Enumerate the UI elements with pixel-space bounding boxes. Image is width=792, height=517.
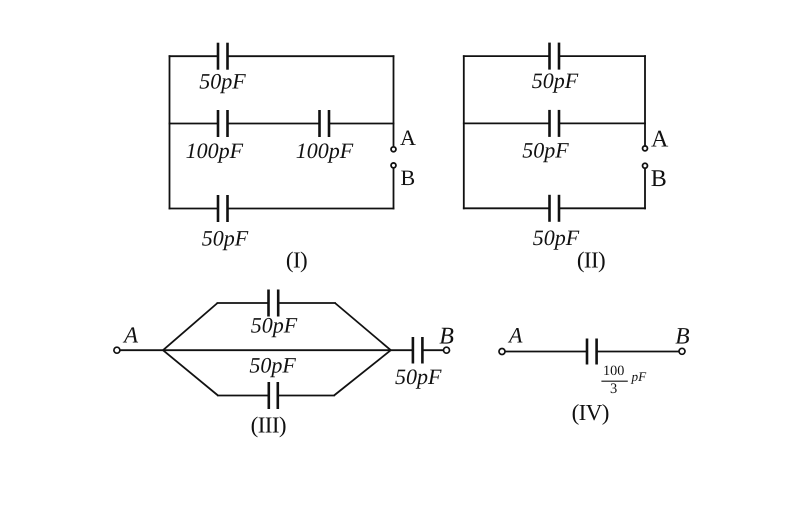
- svg-text:50pF: 50pF: [533, 225, 580, 250]
- svg-text:(II): (II): [577, 247, 605, 272]
- terminal A (circuit III): [114, 347, 120, 353]
- svg-text:50pF: 50pF: [251, 313, 298, 338]
- circuit III : top-right diagonal wire: [335, 303, 391, 350]
- circuit I : right edge upper wire: [393, 55, 395, 146]
- capacitor 50pF (circuit III top branch): [269, 290, 279, 317]
- svg-text:100pF: 100pF: [296, 138, 354, 163]
- svg-text:A: A: [400, 125, 416, 150]
- terminal B (circuit I): [391, 163, 396, 168]
- capacitor 50pF (circuit II bottom branch): [550, 195, 560, 222]
- circuit I : right edge lower wire: [393, 168, 395, 209]
- svg-text:A: A: [507, 323, 523, 348]
- capacitor 50pF (circuit I top branch): [218, 43, 228, 70]
- svg-text:50pF: 50pF: [199, 68, 246, 93]
- svg-text:100: 100: [603, 363, 624, 379]
- circuit I : middle wire left segment: [169, 123, 218, 125]
- circuit II : left edge wire: [463, 55, 465, 209]
- svg-text:pF: pF: [631, 369, 648, 384]
- circuit III : bottom branch wire left segment: [217, 395, 269, 397]
- capacitor 50pF (circuit III series output): [413, 337, 423, 364]
- terminal A (circuit I): [391, 147, 396, 152]
- circuit I : bottom wire right segment: [228, 208, 395, 210]
- circuit III : top-left diagonal wire: [163, 303, 218, 350]
- svg-text:A: A: [122, 323, 139, 348]
- terminal A (circuit II): [643, 146, 648, 151]
- capacitor 100pF (circuit I middle branch, left): [218, 110, 228, 137]
- svg-text:(IV): (IV): [572, 400, 609, 425]
- capacitor 50pF (circuit I bottom branch): [218, 195, 228, 222]
- svg-text:B: B: [651, 166, 667, 192]
- circuit II : right edge upper wire: [644, 55, 646, 145]
- svg-text:(III): (III): [251, 412, 286, 437]
- circuit II : top wire right segment: [559, 55, 646, 57]
- svg-text:B: B: [439, 323, 454, 349]
- capacitor 50pF (circuit II middle branch): [550, 110, 560, 137]
- circuit I : middle wire right segment: [329, 123, 394, 125]
- circuit III : bottom branch wire right segment: [278, 395, 335, 397]
- capacitor 50pF (circuit II top branch): [550, 43, 560, 70]
- circuit I : top wire right segment: [228, 55, 395, 57]
- svg-text:50pF: 50pF: [249, 353, 296, 378]
- circuit III : middle branch wire: [163, 349, 391, 351]
- circuit III : bottom-right diagonal wire: [334, 350, 391, 395]
- circuit I : bottom wire left segment: [169, 208, 218, 210]
- svg-text:B: B: [401, 165, 416, 190]
- capacitor 100pF (circuit I middle branch, right): [320, 110, 330, 137]
- terminal A (circuit IV): [499, 349, 505, 355]
- svg-text:100pF: 100pF: [186, 138, 244, 163]
- terminal B (circuit IV): [679, 348, 685, 354]
- circuit I : middle wire center segment: [228, 123, 320, 125]
- value label fraction bar (circuit IV): [601, 380, 627, 382]
- circuit IV : wire from terminal A to capacitor: [505, 351, 587, 353]
- circuit III : bottom-left diagonal wire: [163, 350, 218, 395]
- circuit II : right edge lower wire: [644, 169, 646, 210]
- svg-text:3: 3: [610, 381, 617, 397]
- circuit III : wire from right node to series capacitor: [391, 349, 413, 351]
- circuit II : bottom wire left segment: [463, 207, 550, 209]
- svg-text:A: A: [651, 127, 669, 153]
- svg-text:50pF: 50pF: [395, 364, 442, 389]
- svg-text:50pF: 50pF: [532, 68, 579, 93]
- circuit I : left edge wire: [169, 55, 171, 209]
- circuit III : top branch wire right segment: [278, 302, 336, 304]
- circuit III : wire from terminal A to left node: [120, 349, 163, 351]
- circuit IV : wire from capacitor to terminal B: [597, 351, 679, 353]
- circuit II : middle wire left segment: [463, 122, 550, 124]
- svg-text:(I): (I): [286, 247, 307, 272]
- terminal B (circuit III): [444, 347, 450, 353]
- circuit II : bottom wire right segment: [559, 207, 646, 209]
- capacitor 50pF (circuit III bottom branch): [269, 382, 278, 409]
- circuit III : wire from series capacitor to terminal B: [422, 349, 443, 351]
- svg-text:50pF: 50pF: [202, 225, 249, 250]
- capacitor 100/3 pF (circuit IV): [587, 339, 597, 365]
- circuit III : top branch wire left segment: [217, 302, 269, 304]
- circuit I : top wire left segment: [169, 55, 218, 57]
- circuit II : top wire left segment: [463, 55, 550, 57]
- svg-text:B: B: [675, 323, 689, 349]
- terminal B (circuit II): [643, 163, 648, 168]
- svg-text:50pF: 50pF: [522, 138, 569, 163]
- circuit II : middle wire right segment: [559, 122, 646, 124]
